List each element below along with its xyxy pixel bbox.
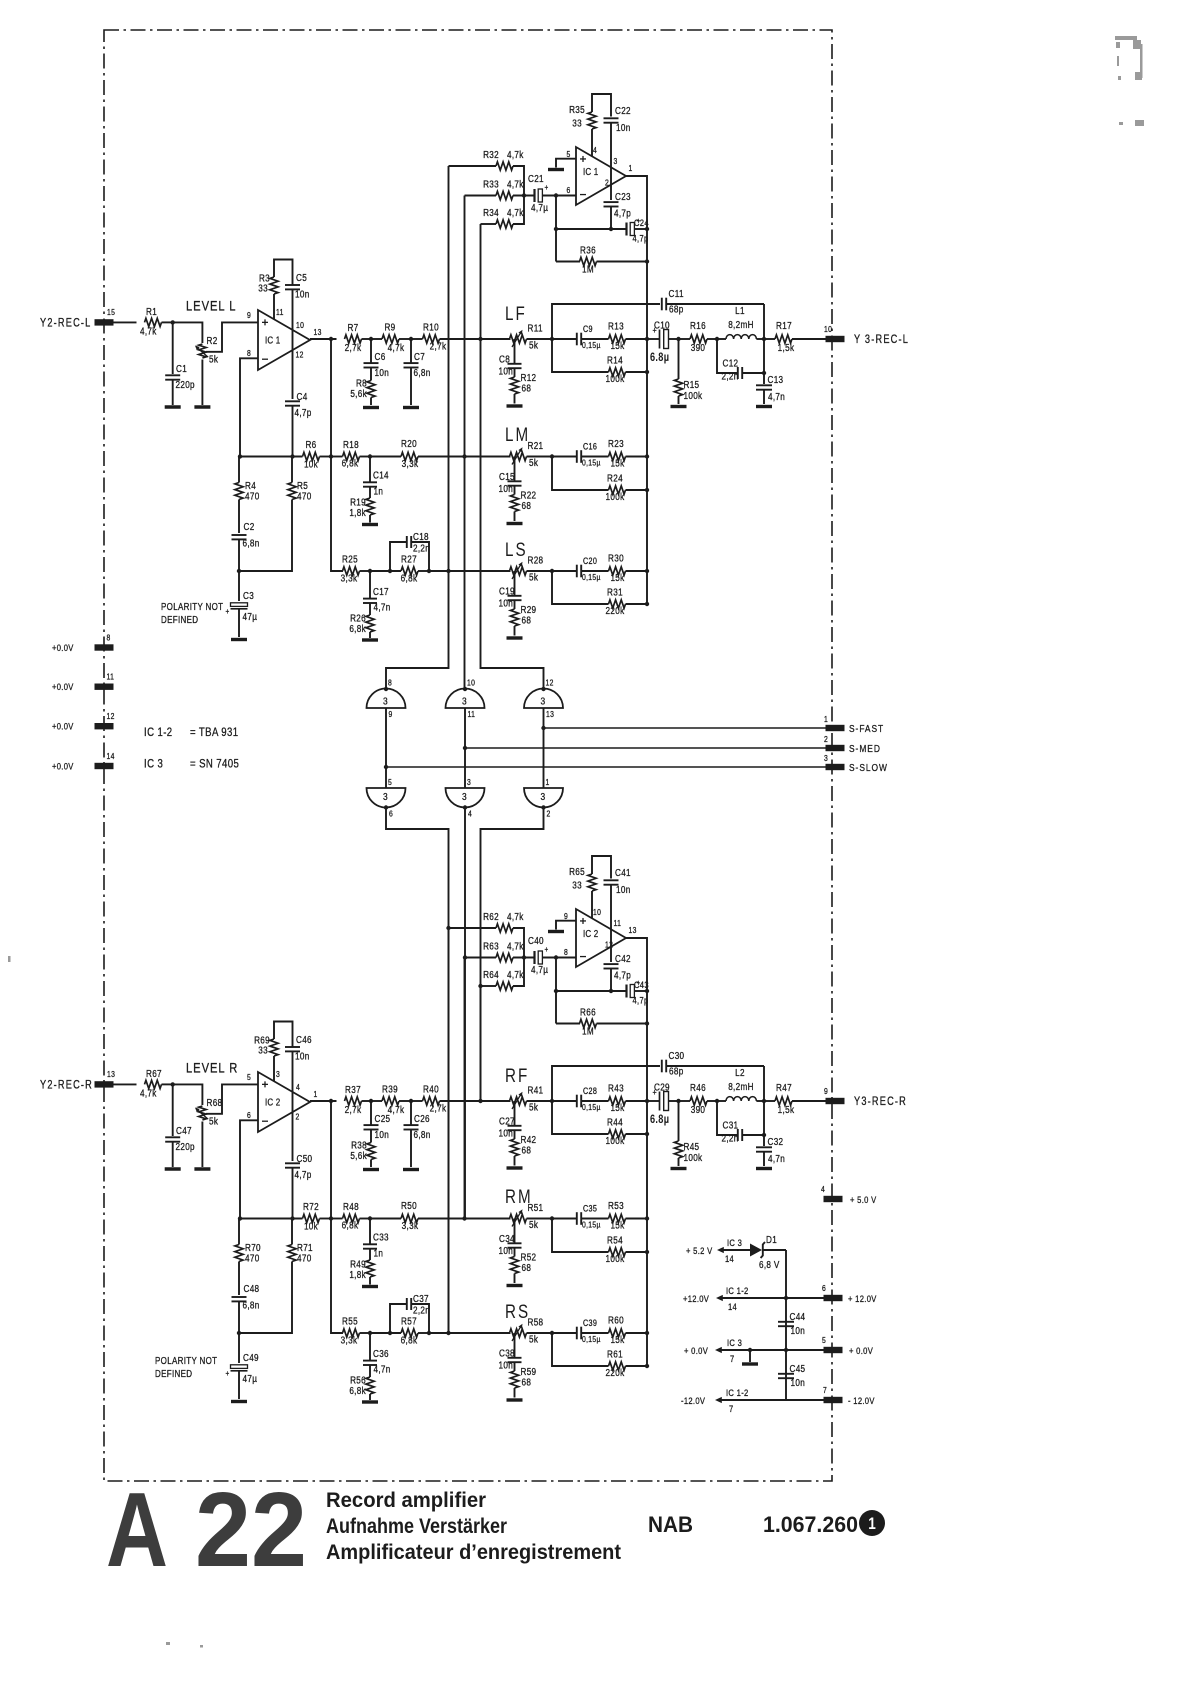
junction [784, 1348, 788, 1352]
wire [172, 1142, 174, 1167]
svg-text:R26: R26 [350, 613, 366, 624]
svg-text:+: + [226, 606, 230, 616]
resistor R18 [343, 452, 360, 460]
junction [784, 1296, 788, 1300]
wire [514, 1333, 516, 1358]
junction [290, 1216, 294, 1220]
svg-text:R46: R46 [690, 1082, 706, 1093]
wire [449, 927, 497, 929]
junction [388, 1331, 392, 1335]
svg-text:1: 1 [824, 714, 828, 724]
svg-text:8: 8 [107, 633, 111, 643]
svg-text:IC 1-2: IC 1-2 [144, 726, 173, 739]
svg-text:10: 10 [593, 907, 601, 917]
resistor R10 [423, 335, 440, 343]
wire [717, 339, 738, 373]
svg-text:2,2n: 2,2n [722, 1133, 739, 1144]
svg-text:4,7k: 4,7k [507, 969, 524, 980]
capacitor C48 [232, 1296, 247, 1298]
svg-text:4,7k: 4,7k [507, 179, 524, 190]
svg-text:IC 1-2: IC 1-2 [726, 1387, 749, 1398]
svg-text:C35: C35 [583, 1204, 597, 1214]
wire [292, 1168, 294, 1219]
capacitor C4 [285, 400, 300, 402]
svg-text:LEVEL R: LEVEL R [186, 1060, 238, 1075]
junction [290, 454, 294, 458]
wire [411, 542, 429, 571]
svg-text:2,7k: 2,7k [430, 341, 447, 352]
svg-text:C41: C41 [615, 867, 631, 878]
junction [463, 687, 467, 691]
junction [462, 454, 466, 458]
wire [390, 542, 406, 571]
capacitor C19 [508, 595, 522, 597]
svg-text:220p: 220p [176, 379, 195, 390]
svg-text:R16: R16 [690, 320, 706, 331]
capacitor C21 [533, 189, 535, 202]
svg-text:0,15µ: 0,15µ [582, 572, 601, 582]
resistor R69 [270, 1039, 278, 1056]
svg-text:R68: R68 [207, 1097, 223, 1108]
svg-text:6.8µ: 6.8µ [650, 352, 669, 364]
svg-text:11: 11 [468, 709, 476, 719]
inductor L1 [726, 335, 756, 339]
junction [446, 926, 450, 930]
resistor R24 [609, 486, 626, 494]
wire [552, 457, 609, 491]
wire [717, 338, 726, 340]
junction [550, 337, 554, 341]
wire [749, 1350, 751, 1362]
resistor R42 [510, 1139, 518, 1156]
svg-text:C32: C32 [768, 1136, 784, 1147]
wire [527, 1100, 553, 1102]
connector pad 2 (S-MED) [826, 745, 845, 751]
junction [427, 1331, 431, 1335]
wire [369, 1333, 371, 1361]
wire [465, 195, 497, 197]
svg-text:0,15µ: 0,15µ [582, 340, 601, 350]
wire [173, 322, 203, 343]
wire [411, 1304, 429, 1333]
svg-text:C2: C2 [244, 521, 255, 532]
svg-text:DEFINED: DEFINED [161, 614, 198, 625]
potentiometer R41 [510, 1097, 527, 1105]
wire [634, 990, 647, 992]
wire [555, 958, 557, 1024]
wire [172, 322, 174, 374]
svg-text:5: 5 [822, 1335, 826, 1345]
ground [671, 405, 687, 408]
junction [645, 1099, 649, 1103]
svg-text:R35: R35 [569, 104, 585, 115]
wire S-SLOW [386, 766, 826, 768]
wire [514, 571, 516, 596]
svg-text:R21: R21 [528, 440, 544, 451]
junction [550, 1099, 554, 1103]
resistor R64 [496, 982, 513, 990]
svg-text:Y2-REC-R: Y2-REC-R [40, 1080, 93, 1092]
junction [329, 454, 333, 458]
capacitor C20 [576, 565, 578, 578]
svg-text:3: 3 [383, 791, 388, 803]
resistor R62 [496, 924, 513, 932]
junction [369, 1099, 373, 1103]
resistor R35 [588, 112, 596, 129]
junction [645, 370, 649, 374]
svg-text:3: 3 [614, 156, 618, 166]
wire [238, 1301, 240, 1333]
wire [481, 223, 497, 225]
wire [429, 570, 511, 572]
svg-text:+ 5.0 V: + 5.0 V [850, 1194, 877, 1205]
junction [368, 1216, 372, 1220]
junction [645, 454, 649, 458]
capacitor C6 [364, 362, 379, 364]
wire [410, 1130, 412, 1168]
svg-text:11: 11 [614, 918, 622, 928]
svg-text:RS: RS [505, 1300, 530, 1322]
resistor R71 [288, 1245, 296, 1262]
resistor R27 [401, 567, 418, 575]
svg-text:R36: R36 [580, 245, 596, 256]
junction [171, 1082, 175, 1086]
connector pad 13 (Y2-REC-R) [95, 1081, 114, 1087]
wire [763, 339, 765, 384]
svg-text:R17: R17 [776, 320, 792, 331]
svg-text:10n: 10n [499, 1128, 514, 1139]
wire [514, 457, 516, 482]
wire [514, 339, 516, 364]
svg-text:S-MED: S-MED [849, 743, 881, 755]
resistor R45 [674, 1141, 682, 1158]
resistor R14 [609, 368, 626, 376]
wire [310, 1100, 337, 1102]
resistor R34 [496, 220, 513, 228]
capacitor C23 [604, 201, 619, 203]
junction [762, 1133, 766, 1137]
svg-text:13: 13 [107, 1069, 115, 1079]
resistor R44 [609, 1130, 626, 1138]
capacitor C5 [285, 284, 300, 286]
svg-text:LS: LS [505, 538, 528, 560]
svg-text:R47: R47 [776, 1082, 792, 1093]
svg-text:22: 22 [195, 1471, 307, 1589]
svg-text:R15: R15 [684, 379, 700, 390]
junction [384, 805, 388, 809]
svg-text:R22: R22 [521, 490, 537, 501]
svg-text:R11: R11 [528, 323, 543, 334]
junction [369, 337, 373, 341]
capacitor C17 [363, 598, 377, 600]
svg-text:7: 7 [730, 1353, 735, 1364]
wire [448, 928, 450, 1333]
resistor R70 [235, 1245, 243, 1262]
svg-text:C12: C12 [723, 358, 739, 369]
svg-text:R34: R34 [483, 207, 499, 218]
svg-text:R8: R8 [356, 378, 367, 389]
capacitor C32 [756, 1146, 772, 1148]
svg-text:390: 390 [691, 342, 706, 353]
resistor R20 [401, 452, 418, 460]
connector pad 1 (S-FAST) [826, 725, 845, 731]
capacitor C39 [576, 1327, 578, 1340]
svg-text:IC 2: IC 2 [265, 1097, 280, 1108]
revision circle 1 [859, 1510, 885, 1536]
wire [240, 1120, 258, 1218]
svg-text:R31: R31 [607, 587, 623, 598]
resistor R29 [510, 609, 518, 626]
junction [541, 687, 545, 691]
resistor R23 [609, 452, 626, 460]
wire [763, 1101, 765, 1146]
connector pad 15 (Y2-REC-L) [95, 319, 114, 325]
svg-text:3,3k: 3,3k [341, 1335, 358, 1346]
wire [449, 165, 497, 167]
svg-text:6,8k: 6,8k [401, 1335, 418, 1346]
svg-text:LF: LF [505, 302, 527, 324]
svg-text:R2: R2 [207, 335, 218, 346]
junction [463, 955, 467, 959]
junction [554, 989, 558, 993]
svg-text:470: 470 [297, 491, 312, 502]
svg-text:- 12.0V: - 12.0V [848, 1395, 875, 1406]
ground [165, 405, 181, 408]
svg-text:4,7k: 4,7k [507, 207, 524, 218]
junction [478, 337, 482, 341]
svg-text:390: 390 [691, 1104, 706, 1115]
svg-text:C7: C7 [414, 351, 425, 362]
junction [554, 193, 558, 197]
svg-text:R43: R43 [608, 1083, 624, 1094]
wire [385, 708, 387, 788]
connector pad 5 (+0.0V) [824, 1347, 843, 1353]
svg-text:10n: 10n [616, 884, 631, 895]
svg-text:6,8 V: 6,8 V [759, 1259, 780, 1270]
svg-text:R48: R48 [343, 1201, 359, 1212]
svg-text:5,6k: 5,6k [350, 1150, 367, 1161]
svg-text:R64: R64 [483, 969, 499, 980]
ground [671, 1167, 687, 1170]
svg-text:6,8n: 6,8n [243, 1300, 260, 1311]
junction [748, 1348, 752, 1352]
svg-text:R14: R14 [607, 355, 623, 366]
svg-text:7: 7 [729, 1403, 734, 1414]
svg-text:+ 0.0V: + 0.0V [684, 1345, 708, 1356]
wire [552, 339, 609, 372]
wire [610, 885, 612, 962]
svg-text:4,7k: 4,7k [140, 326, 157, 337]
capacitor C9 [576, 333, 578, 346]
wire [763, 304, 765, 339]
resistor R60 [609, 1329, 626, 1337]
wire [542, 957, 576, 959]
svg-text:S-FAST: S-FAST [849, 723, 884, 735]
wire [369, 457, 371, 483]
svg-text:10n: 10n [375, 367, 390, 378]
svg-text:C22: C22 [615, 105, 631, 116]
resistor R26 [366, 615, 374, 632]
svg-text:IC 2: IC 2 [583, 928, 598, 939]
svg-text:IC 1: IC 1 [583, 166, 598, 177]
svg-text:5: 5 [247, 1072, 251, 1082]
ground [507, 1398, 523, 1401]
ground [507, 522, 523, 525]
wire [756, 1100, 764, 1102]
junction [463, 746, 467, 750]
svg-text:+0.0V: +0.0V [52, 721, 74, 732]
svg-text:10k: 10k [304, 459, 318, 470]
svg-text:10n: 10n [499, 366, 514, 377]
svg-text:15k: 15k [610, 458, 624, 469]
svg-text:68: 68 [522, 1262, 532, 1273]
svg-text:Y2-REC-L: Y2-REC-L [40, 318, 92, 330]
wire [527, 1218, 553, 1220]
svg-text:4,7n: 4,7n [374, 602, 391, 613]
svg-text:4,7k: 4,7k [507, 911, 524, 922]
svg-text:3: 3 [462, 696, 467, 708]
wire [331, 457, 343, 572]
svg-text:68: 68 [522, 1145, 532, 1156]
wire [610, 123, 612, 200]
wire [626, 938, 647, 1366]
wire to IC3 pin 14 (+5.2V) [721, 1249, 750, 1251]
svg-text:R50: R50 [401, 1200, 417, 1211]
capacitor C33 [363, 1243, 377, 1245]
svg-text:1,5k: 1,5k [778, 1104, 795, 1115]
capacitor C14 [363, 481, 377, 483]
svg-text:RF: RF [505, 1064, 529, 1086]
resistor R36 [580, 257, 597, 265]
svg-text:1n: 1n [374, 1248, 384, 1259]
svg-text:IC 3: IC 3 [727, 1237, 742, 1248]
svg-text:12: 12 [546, 678, 554, 688]
capacitor C42 [604, 963, 619, 965]
wire [172, 380, 174, 405]
border frame (dash-dot) [104, 30, 832, 1481]
svg-text:4,7n: 4,7n [768, 391, 785, 402]
svg-text:R52: R52 [521, 1252, 537, 1263]
svg-text:9: 9 [247, 310, 251, 320]
svg-text:R19: R19 [350, 497, 366, 508]
ground [194, 1167, 210, 1170]
junction [645, 569, 649, 573]
svg-text:1: 1 [314, 1089, 318, 1099]
svg-text:R72: R72 [303, 1201, 319, 1212]
svg-text:C36: C36 [373, 1348, 389, 1359]
svg-text:R60: R60 [608, 1315, 624, 1326]
svg-text:NAB: NAB [648, 1512, 693, 1537]
wire to IC3 pin 7 (+0.0V) [719, 1349, 826, 1351]
junction [478, 984, 482, 988]
svg-text:5,6k: 5,6k [350, 388, 367, 399]
junction [645, 989, 649, 993]
svg-text:+0.0V: +0.0V [52, 761, 74, 772]
svg-text:2,7k: 2,7k [345, 1104, 362, 1115]
svg-text:C30: C30 [669, 1050, 685, 1061]
wire [274, 260, 293, 286]
svg-text:6: 6 [389, 809, 393, 819]
svg-text:R40: R40 [423, 1084, 439, 1095]
resistor R31 [609, 600, 626, 608]
svg-text:6,8k: 6,8k [349, 623, 366, 634]
wire [114, 1083, 137, 1085]
ground [362, 638, 378, 641]
wire [542, 195, 576, 197]
connector pad 12 (+0.0V) [95, 723, 114, 729]
svg-text:5k: 5k [209, 354, 218, 365]
svg-text:R54: R54 [607, 1235, 623, 1246]
wire [481, 985, 497, 987]
inverter gate IC3 (pins 5-6) [367, 788, 406, 808]
capacitor C8 [508, 363, 522, 365]
wire [239, 1295, 292, 1333]
resistor R55 [343, 1329, 360, 1337]
svg-text:1: 1 [546, 777, 550, 787]
wire [274, 1022, 293, 1048]
capacitor C47 [165, 1136, 180, 1138]
svg-text:14: 14 [725, 1253, 734, 1264]
svg-text:10n: 10n [375, 1129, 390, 1140]
resistor R7 [345, 335, 362, 343]
svg-text:13: 13 [546, 709, 554, 719]
wire [556, 990, 626, 992]
svg-text:R61: R61 [607, 1349, 623, 1360]
svg-text:+12.0V: +12.0V [683, 1293, 709, 1304]
capacitor C34 [508, 1242, 522, 1244]
junction [715, 337, 719, 341]
svg-text:2: 2 [605, 178, 609, 188]
svg-text:R10: R10 [423, 322, 439, 333]
op-amp IC 2 (input stage) [258, 1072, 310, 1132]
svg-text:0,15µ: 0,15µ [582, 1334, 601, 1344]
junction [676, 1099, 680, 1103]
inductor L2 [726, 1097, 756, 1101]
capacitor C22 [604, 117, 619, 119]
wire [239, 533, 292, 571]
resistor R38 [367, 1143, 375, 1160]
svg-text:R62: R62 [483, 911, 499, 922]
svg-text:3: 3 [462, 791, 467, 803]
svg-text:3: 3 [467, 777, 471, 787]
ground [403, 406, 419, 409]
svg-text:C21: C21 [528, 173, 544, 184]
resistor R48 [343, 1214, 360, 1222]
svg-text:R1: R1 [146, 306, 157, 317]
svg-text:7: 7 [823, 1385, 827, 1395]
svg-text:15k: 15k [610, 572, 624, 583]
wire [678, 1101, 680, 1141]
junction [762, 1099, 766, 1103]
connector pad 3 (S-SLOW) [826, 764, 845, 770]
wire [763, 390, 765, 404]
svg-text:3: 3 [541, 696, 546, 708]
svg-text:12: 12 [605, 940, 613, 950]
wire [448, 166, 450, 571]
wire [543, 708, 545, 788]
svg-text:10n: 10n [499, 1360, 514, 1371]
ground [403, 1168, 419, 1171]
potentiometer R11 [510, 335, 527, 343]
wire [464, 958, 466, 1219]
capacitor C45 [778, 1373, 794, 1375]
junction [645, 227, 649, 231]
svg-text:47µ: 47µ [243, 1373, 258, 1384]
wire [552, 1101, 609, 1134]
svg-text:C17: C17 [373, 586, 389, 597]
svg-text:8,2mH: 8,2mH [728, 319, 754, 330]
svg-text:C14: C14 [373, 470, 389, 481]
